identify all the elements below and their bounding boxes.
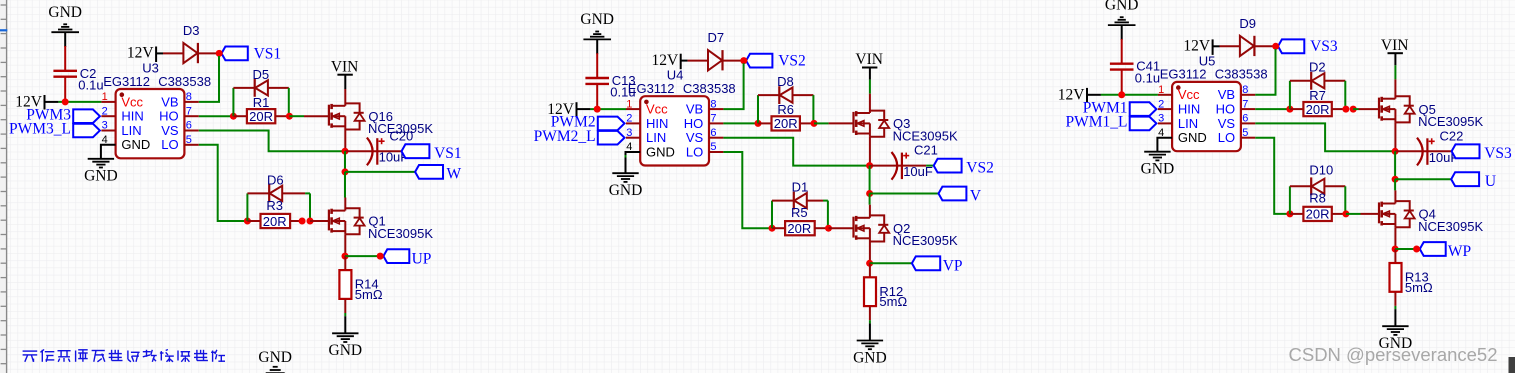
svg-text:2: 2 [1158,98,1164,110]
svg-text:12V: 12V [651,52,679,69]
label Q1 part NCE3095K [368,226,433,241]
label Q3 [893,116,910,131]
label Q1 [368,214,385,229]
svg-text:D5: D5 [252,67,269,82]
svg-text:LIN: LIN [1178,116,1198,131]
svg-text:LIN: LIN [121,123,141,138]
port VS3 (mid) [1452,144,1480,158]
driver IC U3 EG3112 [116,89,185,158]
label WP [1448,243,1471,260]
svg-text:GND: GND [1178,130,1207,145]
wire phase down [344,172,346,198]
label R7 [1309,88,1326,103]
port VP [912,256,940,270]
wire to gate (R6) [814,122,854,124]
wire right riser D2 [1344,81,1346,109]
pin name GND [646,144,675,159]
svg-text:Vcc: Vcc [1178,87,1200,102]
wire to port WP [1395,248,1417,250]
wire Q1 source [344,234,346,256]
svg-text:5mΩ: 5mΩ [1405,280,1433,295]
label Q5 part NCE3095K [1418,114,1483,129]
svg-text:12V: 12V [1058,87,1086,104]
svg-text:D8: D8 [777,74,794,89]
pin 5 stub [184,134,198,146]
pin name VB [1218,87,1235,102]
label D5 [252,67,269,82]
wire left riser D1 [771,201,773,229]
resistor R3 [247,214,304,228]
wire right riser D5 [288,88,290,116]
label VS1 (mid) [434,145,462,162]
label C2 [78,66,103,93]
label U5 designator [1199,53,1216,68]
svg-text:LO: LO [161,137,178,152]
junction source node [342,253,349,260]
wire phase to port U [1395,178,1451,180]
port PWM3 [73,109,100,123]
svg-text:CSDN @perseverance52: CSDN @perseverance52 [1289,344,1498,365]
power port GND (top U4) [580,11,614,54]
transistor Q1 (low-side NMOS) [329,208,365,234]
label PWM1 [1083,99,1128,116]
ground (shunt) [853,341,887,367]
pin 7 stub [184,105,198,117]
wire HO [723,122,758,124]
driver IC U4 EG3112 [640,96,709,165]
wire VIN drop [1394,53,1396,98]
wire LO [199,145,248,221]
svg-text:12V: 12V [1183,38,1211,55]
label R5 [791,205,808,220]
port VS1 (top) [222,47,248,61]
pin 2 stub [101,105,115,117]
pin name LO [1218,130,1235,145]
label Q5 [1419,102,1436,117]
wire to gate (R1) [289,115,329,117]
junction 12V/cap [1118,91,1125,98]
pin 4 number [102,134,108,146]
wire phase to port V [870,193,939,195]
wire left riser D6 [246,193,248,221]
wire to port UP [345,255,380,257]
pin name HIN [1178,102,1200,117]
wire Q3 source [869,137,871,166]
junction phase [342,168,349,175]
transistor Q2 (low-side NMOS) [854,215,890,241]
scrollbar corner [1509,357,1515,373]
junction at port UP [377,253,384,260]
svg-text:20R: 20R [249,109,273,124]
svg-text:3: 3 [1158,113,1164,125]
label VS3 (top) [1310,38,1338,55]
junction R8-right [1342,210,1349,217]
svg-text:UP: UP [412,250,432,267]
wire shunt to ground [869,320,871,340]
pin 1 stub [626,98,640,110]
resistor R14 (shunt) [339,256,351,313]
svg-text:VIN: VIN [855,51,883,68]
svg-text:LO: LO [686,144,703,159]
title text (Chinese) [23,350,225,362]
svg-text:C383538: C383538 [683,81,736,96]
power port 12V (left) [15,94,44,111]
port UP [383,249,409,263]
pin name HO [159,109,179,124]
svg-text:NCE3095K: NCE3095K [893,128,958,143]
diode D6 [247,185,310,203]
svg-text:1: 1 [102,91,108,103]
svg-text:5: 5 [1242,127,1248,139]
wire pin4 to ground [101,145,116,159]
svg-text:GND: GND [121,137,150,152]
pin 4 number [626,141,632,153]
svg-text:R7: R7 [1309,88,1326,103]
svg-text:10uF: 10uF [903,164,933,179]
pin 8 stub [1241,84,1255,96]
label R14 value [355,287,383,302]
pin 3 stub [626,127,640,139]
port PWM1_L [1130,117,1157,131]
transistor Q5 (high-side NMOS) [1379,96,1415,122]
svg-text:GND: GND [48,4,82,21]
svg-text:6: 6 [710,127,716,139]
svg-text:R8: R8 [1309,191,1326,206]
pin 5 stub [709,141,723,153]
ground (shunt) [1379,326,1413,352]
label R1 [253,95,270,110]
junction R3-right B [307,218,314,225]
svg-text:Vcc: Vcc [646,102,668,117]
driver IC U5 EG3112 [1172,82,1241,151]
pin 3 stub [101,120,115,132]
pin name HIN [121,109,143,124]
label Q16 part NCE3095K [368,121,433,136]
svg-text:U: U [1485,173,1496,190]
svg-text:PWM1_L: PWM1_L [1066,114,1128,131]
wire HO [1255,108,1290,110]
wire phase to Q4 drain [1394,190,1396,203]
label PWM1_L [1066,114,1128,131]
svg-text:20R: 20R [1306,207,1330,222]
svg-text:R6: R6 [777,102,794,117]
junction R3-right A [299,218,306,225]
label C383538 [158,74,211,89]
wire pin4 to ground [626,152,641,173]
svg-text:HIN: HIN [1178,102,1200,117]
svg-text:5: 5 [710,141,716,153]
label C41 [1135,59,1160,86]
capacitor C21 [892,152,910,180]
capacitor C13 [585,53,609,109]
svg-text:D9: D9 [1239,16,1256,31]
power port VIN [1381,37,1409,54]
label D6 [267,172,284,187]
ground (pin4) [84,159,118,185]
svg-text:6: 6 [1242,113,1248,125]
label D9 [1239,16,1256,31]
pin name GND [121,137,150,152]
wire phase to Q2 drain [869,205,871,218]
junction switch node [1392,148,1399,155]
ground (pin4) [1141,152,1175,178]
wire left riser D2 [1289,81,1291,109]
ground (pin4) [609,173,643,199]
label U [1485,173,1496,190]
label C383538 [1215,67,1268,82]
svg-text:GND: GND [1105,0,1139,14]
label R6 value 20R [774,116,798,131]
svg-text:HIN: HIN [121,109,143,124]
pin name Vcc [1178,87,1200,102]
wire Q2 source [869,242,871,264]
label EG3112 [1160,67,1207,82]
power port 12V (top) [651,52,680,69]
diode D5 [233,79,288,97]
capacitor C22 [1417,138,1435,166]
svg-text:Vcc: Vcc [121,94,143,109]
power port 12V (top) [1183,38,1212,55]
wire to gate (R8) [1346,213,1379,215]
svg-text:VB: VB [686,102,703,117]
svg-text:12V: 12V [127,45,155,62]
svg-text:C383538: C383538 [158,74,211,89]
ground (shunt) [329,333,363,359]
label R1 value 20R [249,109,273,124]
watermark CSDN [1289,344,1498,365]
diode D8 [758,86,813,104]
junction R3-left [244,218,251,225]
pin 4 number [1158,127,1164,139]
svg-text:WP: WP [1448,243,1471,260]
label C21 value 10uF [903,164,933,179]
svg-text:GND: GND [84,168,118,185]
wire right riser D10 [1344,186,1346,214]
label R5 value 20R [787,221,811,236]
resistor R6 [758,116,814,130]
svg-text:5mΩ: 5mΩ [355,287,383,302]
svg-text:PWM2_L: PWM2_L [534,128,596,145]
junction R6-right [811,120,818,127]
label D1 [792,180,809,195]
svg-text:VS: VS [1218,116,1236,131]
svg-text:GND: GND [1141,161,1175,178]
transistor Q4 (low-side NMOS) [1379,201,1415,227]
resistor R12 (shunt) [864,263,876,320]
svg-text:R5: R5 [791,205,808,220]
svg-text:20R: 20R [263,214,287,229]
label VS1 (top) [254,45,282,62]
label Q2 [893,221,910,236]
port VS2 (top) [746,54,772,68]
wire pin4 to ground [1157,138,1172,152]
svg-text:HO: HO [1216,102,1236,117]
label VP [943,258,963,275]
wire VB to bootstrap [1255,49,1275,95]
wire 12V to junction [45,101,102,103]
wire phase to port W [345,171,415,173]
svg-text:2: 2 [102,105,108,117]
svg-text:VIN: VIN [1381,37,1409,54]
port VS3 (top) [1278,39,1304,53]
svg-text:GND: GND [580,11,614,28]
label PWM3_L [9,121,71,138]
svg-text:NCE3095K: NCE3095K [1418,219,1483,234]
pin name LO [161,137,178,152]
wire to gate (R3) [310,220,329,222]
svg-text:1: 1 [626,98,632,110]
label Q2 part NCE3095K [893,233,958,248]
label EG3112 [628,81,675,96]
svg-text:EG3112: EG3112 [1160,67,1207,82]
svg-text:0.1u: 0.1u [1135,70,1160,85]
pin name HO [1216,102,1236,117]
resistor R5 [772,221,829,235]
label Q3 part NCE3095K [893,128,958,143]
svg-text:0.1u: 0.1u [78,78,103,93]
svg-text:6: 6 [186,120,192,132]
label C22 value 10uF [1429,150,1459,165]
pin name LIN [646,130,666,145]
svg-text:5: 5 [186,134,192,146]
wire shunt to ground [344,313,346,333]
svg-text:C22: C22 [1440,128,1464,143]
wire to port VP [870,262,912,264]
junction bootstrap [740,57,747,64]
svg-text:GND: GND [609,182,643,199]
svg-text:8: 8 [1242,84,1248,96]
pin 8 stub [184,91,198,103]
junction 12V/cap [62,98,69,105]
diode D7 [708,50,741,70]
diode D10 [1290,177,1345,195]
power port GND (bottom left) [258,349,292,373]
label R12 [879,284,903,299]
junction R6-left [755,120,762,127]
wire Q5 source [1394,122,1396,151]
wire through C21 [870,165,934,167]
label PWM2 [551,114,596,131]
svg-text:HO: HO [684,116,704,131]
wire HO [199,115,234,117]
wire Q4 source [1394,227,1396,249]
label R12 value [879,294,907,309]
wire right riser D1 [827,201,829,229]
wire LO [1255,138,1290,214]
wire left riser D8 [757,95,759,123]
wire 12V to junction [577,108,627,110]
svg-text:GND: GND [853,349,887,366]
power port VIN [855,51,883,68]
wire switch node down [344,151,346,172]
svg-text:VS: VS [686,130,704,145]
label U3 designator [142,61,159,76]
pin 6 stub [709,127,723,139]
svg-text:VS3: VS3 [1310,38,1338,55]
svg-text:20R: 20R [1306,102,1330,117]
port W [415,165,443,179]
label D7 [707,30,724,45]
label D2 [1309,60,1326,75]
pin name Vcc [121,94,143,109]
pin name VS [1218,116,1236,131]
svg-text:VS1: VS1 [254,45,282,62]
label V [970,187,982,204]
port PWM2_L [598,131,625,145]
label VS3 (mid) [1484,145,1512,162]
svg-text:8: 8 [710,98,716,110]
svg-text:VS2: VS2 [966,160,994,177]
wire phase down [1394,179,1396,190]
wire right riser D8 [812,95,814,123]
label PWM3 [26,106,71,123]
power port VIN [331,58,359,75]
svg-text:NCE3095K: NCE3095K [893,233,958,248]
label D3 [183,23,200,38]
pin 1 stub [1158,84,1172,96]
svg-text:C21: C21 [914,143,938,158]
svg-text:GND: GND [329,342,363,359]
label D10 [1309,162,1333,177]
junction R7-left [1286,106,1293,113]
junction R5-right [825,225,832,232]
pin 6 stub [184,120,198,132]
capacitor C2 [53,46,77,102]
junction switch node [342,148,349,155]
pin 7 stub [709,113,723,125]
pin name VB [686,102,703,117]
wire VIN drop [869,68,871,114]
junction at port WP [1413,246,1420,253]
wire VS sense [1255,123,1392,151]
svg-text:7: 7 [186,105,192,117]
junction switch node [866,162,873,169]
svg-text:LIN: LIN [646,130,666,145]
svg-text:VS: VS [161,123,179,138]
label Q4 [1419,207,1436,222]
junction 12V/cap [594,106,601,113]
label R6 [777,102,794,117]
pin name VB [161,94,178,109]
diode D1 [772,192,828,210]
junction R7-right B [1350,106,1357,113]
svg-text:VIN: VIN [331,58,359,75]
svg-text:VS3: VS3 [1484,145,1512,162]
label C21 [914,143,938,158]
pin name LO [686,144,703,159]
pin name VS [686,130,704,145]
junction bootstrap [216,50,223,57]
wire VB to bootstrap [199,56,219,102]
wire phase down [869,194,871,205]
junction R1-left [230,113,237,120]
label R14 [355,277,379,292]
capacitor C41 [1110,39,1134,95]
wire VB to bootstrap [723,63,743,109]
label U4 designator [667,68,684,83]
svg-text:R1: R1 [253,95,270,110]
svg-text:2: 2 [626,113,632,125]
label UP [412,250,432,267]
wire VS sense [199,131,342,152]
svg-text:D2: D2 [1309,60,1326,75]
label D8 [777,74,794,89]
svg-text:EG3112: EG3112 [628,81,675,96]
pin name GND [1178,130,1207,145]
label C20 [389,128,413,143]
wire 12V to diode [1213,45,1240,47]
svg-text:D6: D6 [267,172,284,187]
